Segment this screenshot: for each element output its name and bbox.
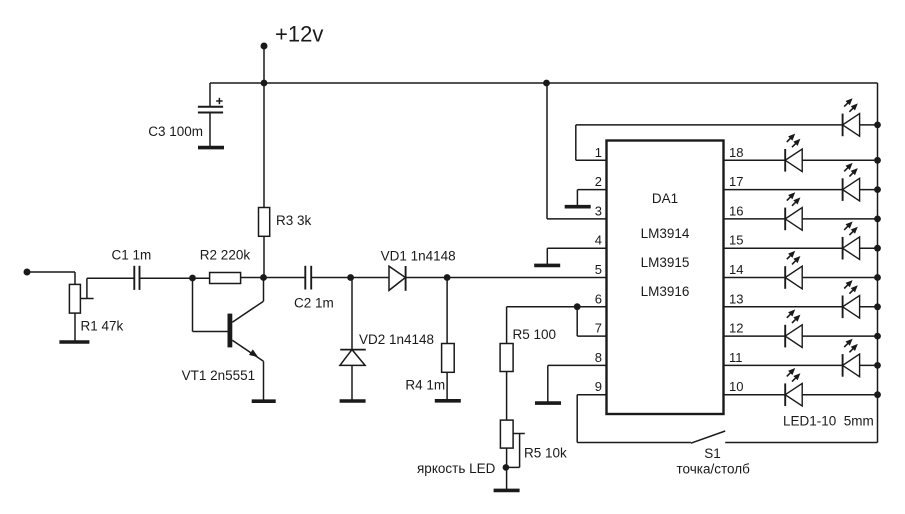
svg-text:R1 47k: R1 47k (81, 318, 124, 333)
wire R4 to ground (446, 372, 448, 400)
wire right bus (725, 83, 877, 443)
R1 wiper (80, 278, 93, 298)
wire pin 3 to rail (547, 83, 607, 219)
wire input to R1 (27, 272, 75, 284)
pin 16 number (729, 203, 743, 218)
LED row pin 11 (843, 339, 860, 377)
potentiometer R1 (69, 284, 80, 313)
svg-text:14: 14 (729, 262, 743, 277)
resistor R3 (259, 208, 270, 237)
wire pin 6 to R5 (507, 306, 607, 308)
wire node A to VT1 base (193, 278, 228, 332)
svg-text:3: 3 (595, 203, 602, 218)
wire +12v terminal down to node (263, 46, 265, 278)
wire LED pin 13 anode to bus (860, 306, 878, 308)
ground pin 8 (535, 401, 561, 405)
bus junction pin 11 (874, 362, 881, 369)
pin 6 junction (574, 303, 581, 310)
capacitor C2 (305, 266, 311, 290)
pin 18 number (729, 145, 743, 160)
node A junction (189, 275, 196, 282)
ground below VD2 (340, 399, 366, 403)
svg-text:16: 16 (729, 203, 743, 218)
wire R2 to node B (241, 277, 306, 279)
wire pin 9 to switch (577, 395, 691, 443)
label LM3916 (641, 284, 690, 299)
wire R1 to ground (74, 313, 76, 342)
svg-text:2: 2 (595, 174, 602, 189)
wire pin 16 to LED (724, 218, 786, 220)
wire LED pin 11 anode to bus (860, 364, 878, 366)
ground pin 2 (565, 205, 591, 209)
svg-text:C1 1m: C1 1m (112, 247, 152, 262)
wire pin 14 to LED (724, 277, 786, 279)
bus junction row 1 (874, 122, 881, 129)
svg-text:1: 1 (595, 145, 602, 160)
capacitor C1 (134, 266, 139, 290)
svg-text:LM3914: LM3914 (641, 226, 690, 241)
wire LED pin 10 anode to bus (802, 394, 877, 396)
wire LED pin 17 anode to bus (860, 189, 878, 191)
pin 9 number (595, 379, 602, 394)
node C junction (347, 274, 354, 281)
wire pin 12 to LED (724, 335, 786, 337)
svg-text:LM3915: LM3915 (641, 255, 690, 270)
wire VD1 to pin 5 (406, 277, 607, 279)
ground below R1 (59, 340, 89, 344)
power terminal +12v (261, 43, 268, 50)
wire pin 8 to ground (548, 365, 607, 402)
diode VD1 (389, 266, 406, 291)
svg-text:12: 12 (729, 321, 743, 336)
label LM3915 (641, 255, 690, 270)
svg-text:яркость LED: яркость LED (417, 461, 496, 476)
wire pin 11 to LED (724, 364, 843, 366)
wire LED1 anode to bus (860, 124, 878, 126)
wire +12v rail (210, 82, 878, 84)
label R4 1m (405, 378, 445, 393)
label C3 100m (148, 124, 203, 139)
wire pin 4 to ground (547, 248, 606, 265)
label R1 47k (81, 318, 124, 333)
svg-text:5: 5 (595, 262, 602, 277)
VT1 emitter (232, 340, 263, 361)
pin 8 number (595, 350, 602, 365)
pin 5 number (595, 262, 602, 277)
label яркость LED (417, 461, 496, 476)
wire pin 1 over chip (576, 125, 843, 160)
capacitor C3 (198, 107, 223, 148)
node B junction (260, 274, 267, 281)
svg-text:DA1: DA1 (652, 191, 678, 206)
LED row 1 (pin 1) (843, 98, 860, 136)
bus junction pin 17 (874, 186, 881, 193)
svg-text:S1: S1 (704, 446, 721, 461)
pin 2 number (595, 174, 602, 189)
svg-text:LED1-10 5mm: LED1-10 5mm (783, 414, 874, 429)
svg-text:R3 3k: R3 3k (276, 213, 312, 228)
label R3 3k (276, 213, 312, 228)
LED row pin 16 (785, 192, 802, 230)
bus junction pin 18 (874, 157, 881, 164)
svg-text:+12v: +12v (275, 22, 323, 47)
wire rail corner to C3 (209, 83, 211, 107)
bus junction pin 13 (874, 303, 881, 310)
svg-text:10: 10 (729, 379, 743, 394)
bus junction pin 10 (874, 391, 881, 398)
label S1 (704, 446, 721, 461)
svg-text:R5 100: R5 100 (513, 327, 557, 342)
pin 15 number (729, 233, 743, 248)
bus junction pin 15 (874, 245, 881, 252)
pin 1 number (595, 145, 602, 160)
wire pin 2 to ground (577, 190, 606, 207)
wire node C to VD2 (351, 278, 353, 350)
svg-text:4: 4 (595, 233, 602, 248)
ground below R4 (435, 399, 461, 403)
svg-text:R2 220k: R2 220k (200, 247, 251, 262)
svg-text:точка/столб: точка/столб (677, 461, 751, 476)
resistor R4 (442, 344, 455, 373)
pin 11 number (729, 350, 743, 365)
junction +12v rail at x264 (261, 80, 268, 87)
wire VT1 emitter to ground (263, 361, 265, 400)
wire LED pin 16 anode to bus (802, 218, 877, 220)
label +12v (275, 22, 323, 47)
svg-text:17: 17 (729, 174, 743, 189)
LED row pin 10 (785, 368, 802, 406)
pin 10 number (729, 379, 743, 394)
svg-text:13: 13 (729, 291, 743, 306)
pin 17 number (729, 174, 743, 189)
label R5 100 (513, 327, 557, 342)
svg-text:9: 9 (595, 379, 602, 394)
bus junction pin 14 (874, 274, 881, 281)
svg-text:VT1 2n5551: VT1 2n5551 (182, 368, 256, 383)
label точка/столб (677, 461, 751, 476)
wire pin 7 loop (577, 307, 606, 336)
LED row pin 17 (843, 163, 860, 201)
bus junction pin 12 (874, 333, 881, 340)
input terminal (24, 269, 31, 276)
pin 3 number (595, 203, 602, 218)
svg-text:15: 15 (729, 233, 743, 248)
switch S1 blade (691, 431, 725, 443)
node D junction (444, 274, 451, 281)
resistor R5 100 (500, 344, 513, 372)
svg-text:VD2 1n4148: VD2 1n4148 (359, 332, 434, 347)
wire LED pin 12 anode to bus (802, 335, 877, 337)
pin 13 number (729, 291, 743, 306)
wire C2 to node C (311, 277, 389, 279)
pin 7 number (595, 321, 602, 336)
label R5 10k (524, 446, 567, 461)
ground pin 4 (534, 264, 560, 268)
LED row pin 13 (843, 280, 860, 318)
LED row pin 14 (785, 251, 802, 289)
LED row pin 18 (785, 134, 802, 172)
wire LED pin 14 anode to bus (802, 277, 877, 279)
svg-text:C3 100m: C3 100m (148, 124, 203, 139)
wire pin 13 to LED (724, 306, 843, 308)
pin 6 number (595, 291, 602, 306)
wire LED pin 18 anode to bus (802, 159, 877, 161)
svg-text:VD1 1n4148: VD1 1n4148 (381, 248, 456, 263)
wire pin6 node to R5 (506, 307, 508, 344)
label VD1 1n4148 (381, 248, 456, 263)
bus junction pin 16 (874, 216, 881, 223)
label C2 1m (294, 296, 334, 311)
svg-text:R5 10k: R5 10k (524, 446, 567, 461)
wire C1 to node A (140, 277, 210, 279)
svg-text:11: 11 (729, 350, 743, 365)
wire pin 15 to LED (724, 247, 843, 249)
transistor VT1 base bar (228, 314, 233, 348)
wire pin 18 to LED (724, 159, 786, 161)
VT1 collector (232, 278, 263, 323)
label DA1 (652, 191, 678, 206)
capacitor C3 plus sign (216, 98, 222, 104)
wire R5 to pot (506, 372, 508, 421)
svg-text:6: 6 (595, 291, 602, 306)
wiper junction (503, 464, 510, 471)
potentiometer R5 10k (500, 420, 513, 448)
LED row pin 15 (843, 222, 860, 260)
label VT1 2n5551 (182, 368, 256, 383)
wire LED pin 15 anode to bus (860, 247, 878, 249)
svg-text:C2 1m: C2 1m (294, 296, 334, 311)
ground below VT1 (252, 399, 276, 403)
svg-text:7: 7 (595, 321, 602, 336)
label VD2 1n4148 (359, 332, 434, 347)
svg-text:LM3916: LM3916 (641, 284, 690, 299)
resistor R2 (210, 273, 241, 284)
wire pot to ground (506, 448, 508, 490)
wire node D to R4 (446, 278, 448, 344)
label LM3914 (641, 226, 690, 241)
wire pin 10 to LED (724, 394, 786, 396)
ground below R5 10k (494, 489, 520, 493)
diode VD2 (340, 350, 366, 400)
label R2 220k (200, 247, 251, 262)
svg-text:R4 1m: R4 1m (405, 378, 445, 393)
pin 4 number (595, 233, 602, 248)
pin 12 number (729, 321, 743, 336)
R5 10k wiper (506, 434, 525, 468)
label LED1-10 5mm (783, 414, 874, 429)
svg-text:18: 18 (729, 145, 743, 160)
rail junction pin 3 (543, 80, 550, 87)
svg-text:8: 8 (595, 350, 602, 365)
wire pin 17 to LED (724, 189, 843, 191)
op-amp U1 body DA1 (607, 141, 724, 415)
label C1 1m (112, 247, 152, 262)
pin 14 number (729, 262, 743, 277)
LED row pin 12 (785, 309, 802, 347)
ground below C3 (198, 146, 224, 150)
wire R1 wiper to C1 (87, 277, 134, 279)
